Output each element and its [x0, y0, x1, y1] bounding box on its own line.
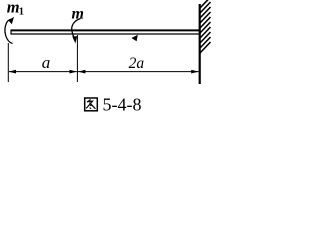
- wall hatching: [200, 0, 211, 53]
- svg-text:a: a: [42, 53, 51, 72]
- extension line middle: [76, 35, 78, 82]
- beam bottom line: [11, 33, 200, 35]
- beam left end cap: [10, 30, 12, 35]
- dimension line a: [9, 71, 77, 73]
- svg-text:1: 1: [19, 6, 24, 17]
- dim arrow a right: [70, 70, 77, 74]
- svg-text:2a: 2a: [129, 55, 145, 72]
- moment arc m1 arrowhead: [8, 17, 14, 24]
- svg-text:m: m: [72, 5, 84, 22]
- moment arc m (at x=77, arrowhead at bottom): [72, 19, 81, 41]
- beam top line: [11, 29, 201, 31]
- dim arrow 2a left: [78, 70, 85, 74]
- svg-text:5-4-8: 5-4-8: [103, 95, 142, 115]
- wall line: [199, 4, 201, 84]
- dim arrow 2a right: [191, 70, 198, 74]
- extension line left: [7, 43, 9, 82]
- caption glyph 图 (drawn): [85, 98, 98, 111]
- small arrow marker below beam: [132, 35, 138, 41]
- dim arrow a left: [9, 70, 16, 74]
- dimension line 2a: [78, 71, 199, 73]
- moment arc m1 (left end, arrowhead at top): [5, 19, 13, 43]
- moment arc m arrowhead: [72, 36, 77, 43]
